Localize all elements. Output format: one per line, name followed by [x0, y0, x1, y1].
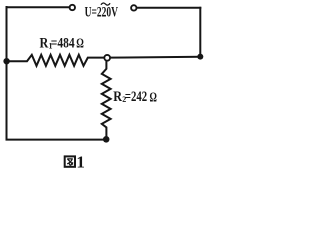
- wire: bottom horizontal: [7, 139, 105, 141]
- svg-text:=484: =484: [51, 35, 75, 51]
- label R1=484 ohm: [40, 35, 84, 51]
- wire: top left segment to terminal: [7, 6, 70, 8]
- svg-text:R: R: [40, 35, 49, 51]
- label R2=242 ohm: [113, 89, 157, 105]
- svg-text:=242: =242: [125, 89, 147, 105]
- svg-text:1: 1: [76, 153, 85, 171]
- resistor R1: [10, 55, 104, 66]
- wire: left vertical side: [6, 7, 8, 140]
- junction dot on left wire: [3, 58, 9, 64]
- wire: middle horizontal from node to right corner: [110, 56, 200, 59]
- terminal (open circle, right of source): [131, 5, 136, 10]
- caption: hanzi TU (figure) drawn as glyph: [65, 156, 75, 166]
- junction dot right end of middle wire: [197, 54, 203, 60]
- svg-text:Ω: Ω: [76, 37, 84, 52]
- wire: top right segment from terminal to corner: [137, 7, 201, 9]
- svg-text:R: R: [113, 89, 122, 105]
- svg-text:Ω: Ω: [150, 90, 157, 105]
- node (open circle) junction of R1 and R2: [104, 55, 110, 61]
- wire: right vertical side: [199, 8, 201, 57]
- terminal (open circle, left of source): [70, 5, 75, 10]
- junction dot bottom of R2: [103, 136, 110, 143]
- AC tilde over source label: [101, 3, 110, 5]
- svg-text:U=220V: U=220V: [85, 5, 119, 21]
- resistor R2: [102, 61, 111, 136]
